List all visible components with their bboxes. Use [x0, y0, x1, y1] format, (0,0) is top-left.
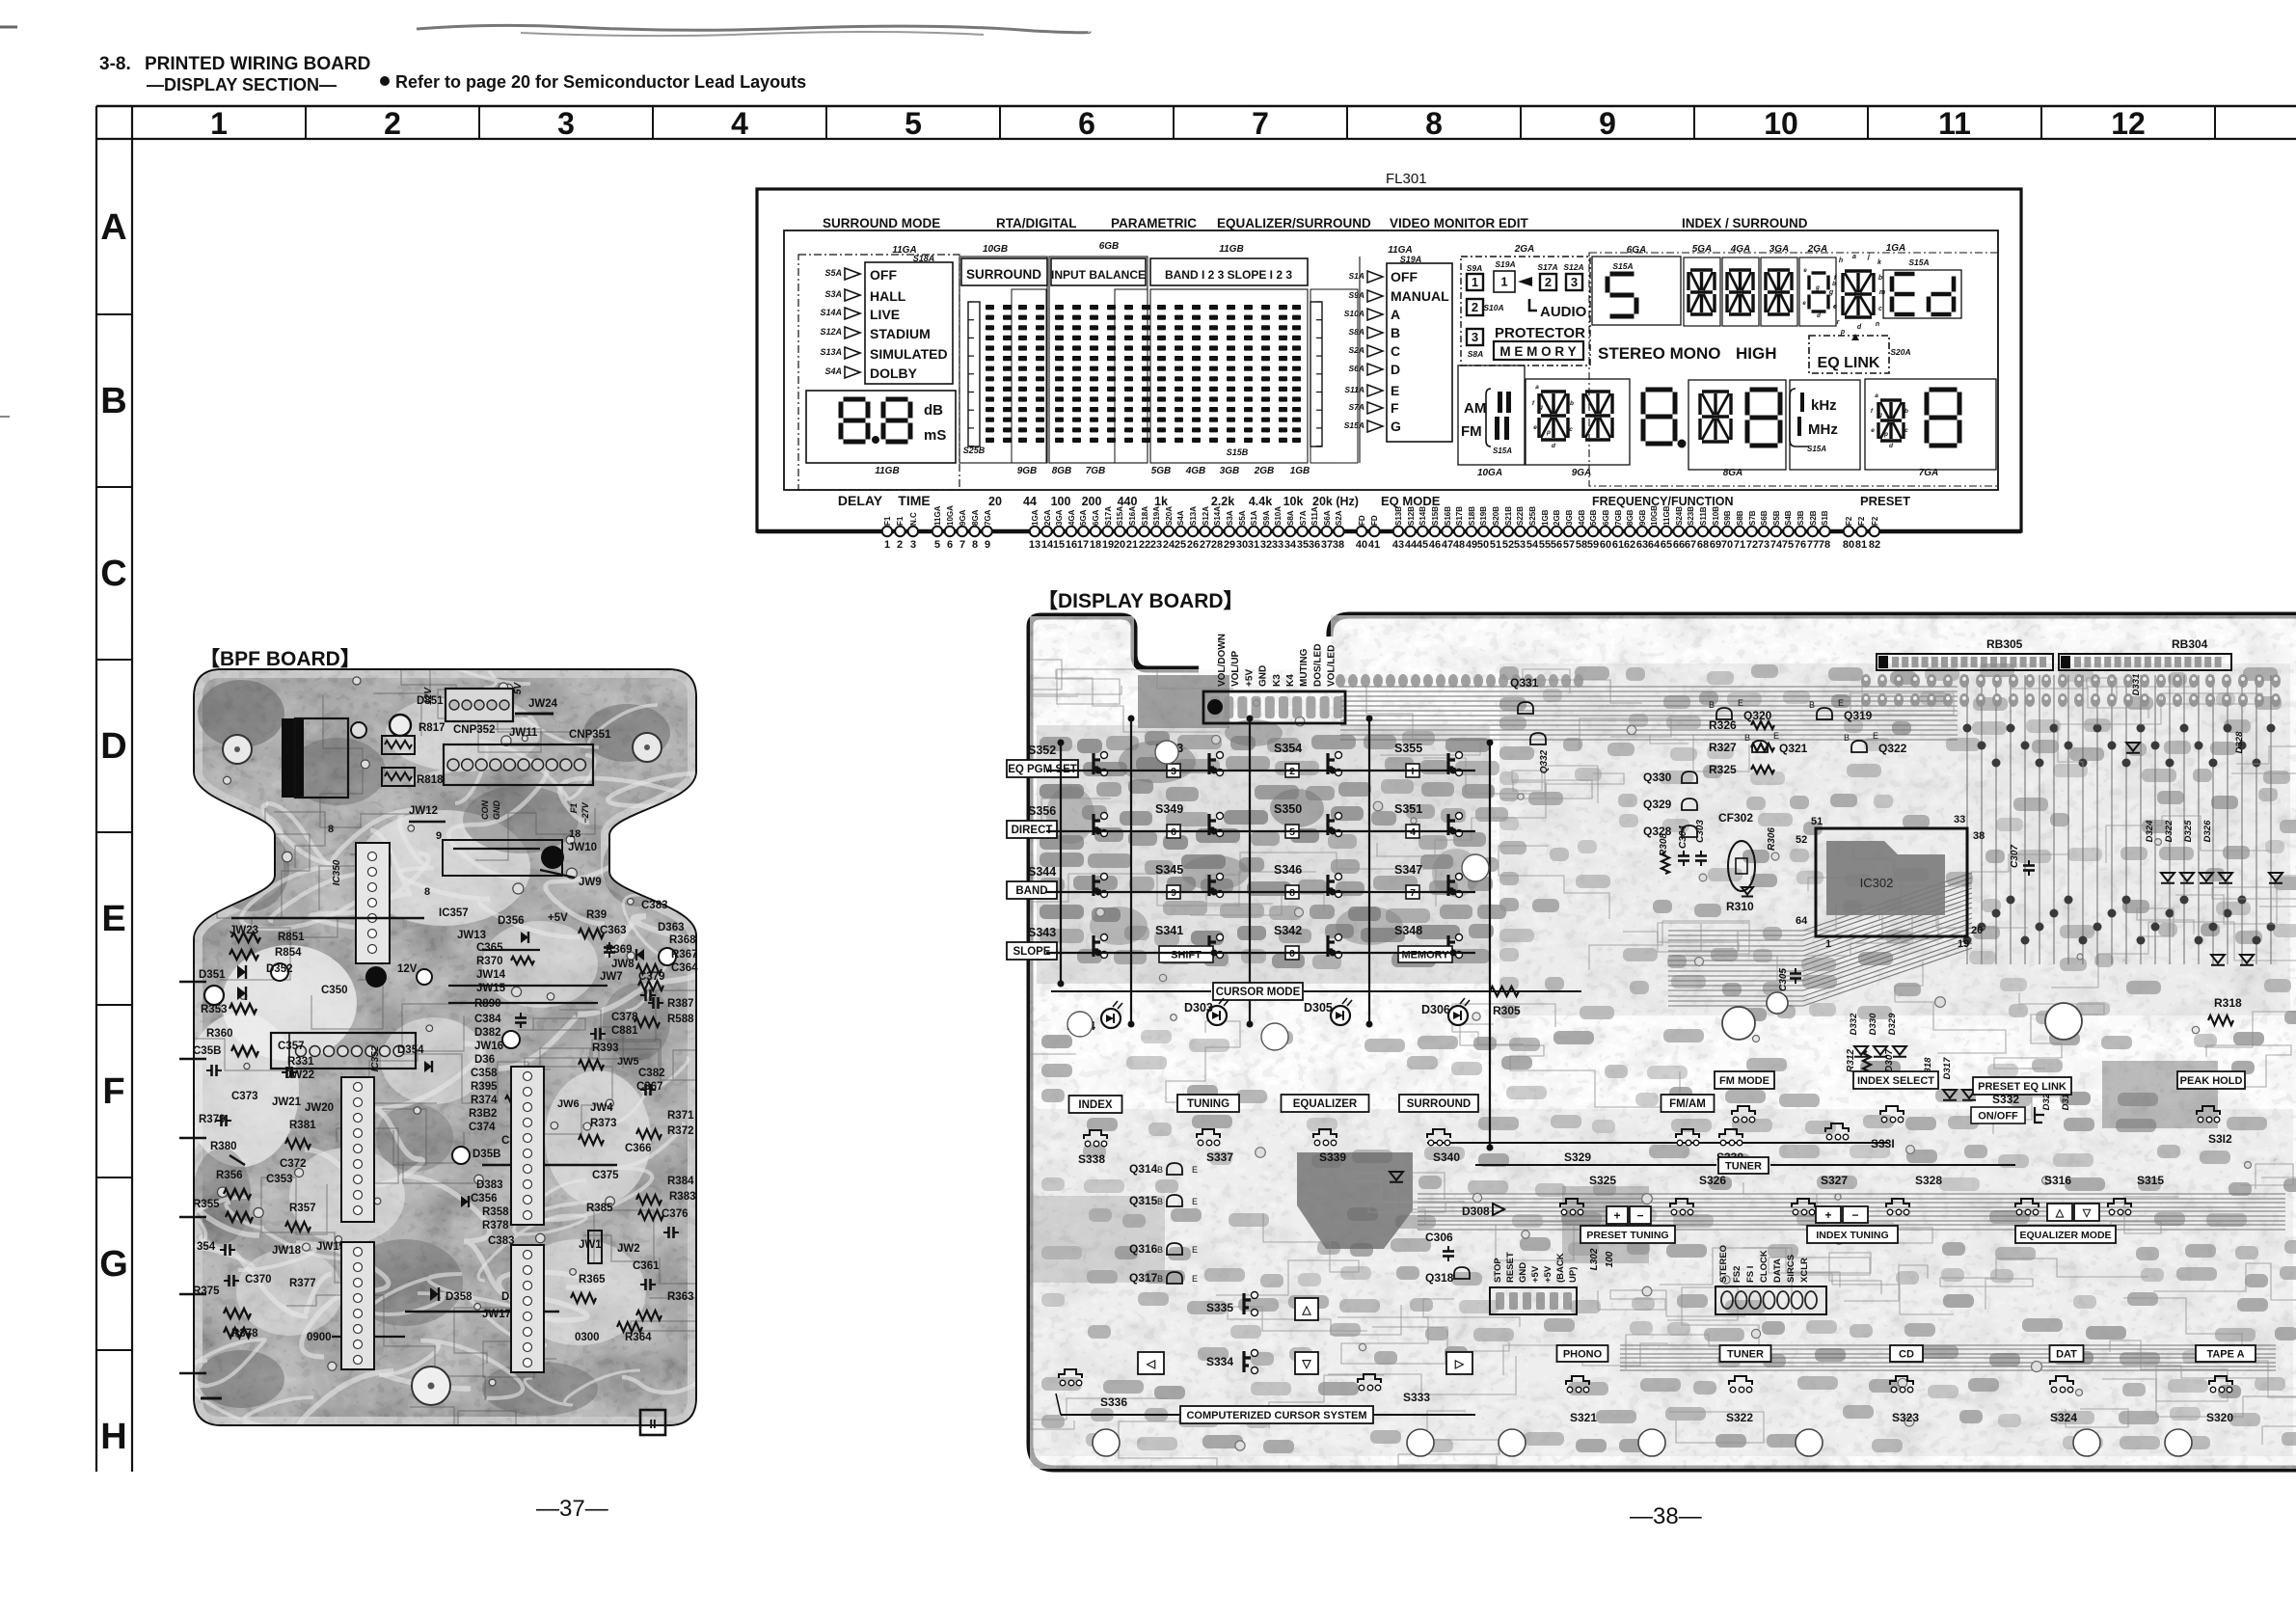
svg-text:R385: R385 — [586, 1203, 613, 1214]
svg-text:4.4k: 4.4k — [1249, 495, 1272, 508]
svg-text:(BACK: (BACK — [1555, 1253, 1566, 1283]
svg-text:37: 37 — [1321, 539, 1333, 551]
svg-text:R3B2: R3B2 — [469, 1108, 497, 1120]
svg-text:67: 67 — [1685, 539, 1696, 551]
svg-text:STEREO: STEREO — [1718, 1245, 1729, 1283]
7seg digit with decimal point — [1646, 388, 1673, 392]
svg-text:3: 3 — [910, 539, 916, 551]
svg-text:R356: R356 — [216, 1170, 243, 1181]
svg-text:JW2: JW2 — [617, 1243, 640, 1255]
svg-text:E: E — [1838, 698, 1844, 708]
svg-text:S348: S348 — [1394, 924, 1422, 937]
svg-text:52: 52 — [1502, 539, 1514, 551]
svg-text:INDEX / SURROUND: INDEX / SURROUND — [1682, 216, 1808, 230]
svg-text:R39: R39 — [586, 909, 607, 921]
svg-text:7: 7 — [959, 539, 965, 551]
svg-text:b: b — [1878, 275, 1883, 282]
svg-text:XCLR: XCLR — [1799, 1258, 1810, 1283]
svg-text:66: 66 — [1673, 539, 1685, 551]
svg-text:SLOPE: SLOPE — [1013, 946, 1051, 958]
svg-text:3: 3 — [557, 106, 575, 141]
svg-text:51: 51 — [1811, 816, 1823, 827]
svg-text:18: 18 — [1090, 539, 1101, 551]
more switches S330 S331 — [1719, 1129, 1742, 1138]
svg-text:m: m — [1879, 289, 1885, 296]
svg-text:3GB: 3GB — [1220, 466, 1240, 476]
segment reference starburst 1GA — [1845, 269, 1872, 272]
BPF trace channels — [99, 556, 802, 1485]
svg-text:D324: D324 — [2145, 820, 2155, 842]
svg-text:CON: CON — [480, 800, 490, 821]
svg-text:S17B: S17B — [1455, 506, 1464, 526]
AM/FM band display — [1458, 365, 1525, 465]
svg-text:81: 81 — [1855, 539, 1867, 551]
svg-text:5: 5 — [905, 106, 922, 141]
svg-text:6: 6 — [1078, 106, 1095, 141]
svg-text:R817: R817 — [419, 722, 446, 734]
svg-text:S336: S336 — [1100, 1395, 1127, 1409]
svg-text:11GB: 11GB — [1662, 505, 1671, 526]
svg-text:57: 57 — [1563, 539, 1575, 551]
svg-text:S33I: S33I — [1871, 1137, 1895, 1150]
svg-text:R890: R890 — [474, 998, 501, 1010]
svg-text:S315: S315 — [2137, 1174, 2164, 1187]
R305 — [1490, 987, 1519, 996]
svg-text:VOL/LED: VOL/LED — [1327, 645, 1337, 687]
svg-text:69: 69 — [1710, 539, 1721, 551]
svg-text:R379: R379 — [199, 1114, 226, 1125]
svg-text:SIMULATED: SIMULATED — [870, 346, 948, 362]
svg-text:4GB: 4GB — [1578, 509, 1586, 526]
svg-text:6GA: 6GA — [1092, 509, 1100, 526]
svg-text:p: p — [1883, 431, 1888, 438]
svg-text:R318: R318 — [2214, 996, 2242, 1010]
svg-text:5GA: 5GA — [1079, 509, 1088, 526]
svg-text:S2B: S2B — [1809, 510, 1818, 526]
svg-text:+5V: +5V — [1543, 1265, 1553, 1283]
svg-text:64: 64 — [1796, 915, 1808, 927]
svg-text:20k (Hz): 20k (Hz) — [1312, 495, 1359, 508]
svg-text:2: 2 — [384, 106, 401, 141]
button PHONO / switch S321 — [1557, 1345, 1608, 1362]
svg-text:R383: R383 — [669, 1191, 696, 1203]
svg-text:FM MODE: FM MODE — [1719, 1075, 1769, 1087]
button TAPE A / switch S320 — [2196, 1345, 2255, 1362]
svg-text:S335: S335 — [1206, 1301, 1233, 1314]
LED D306 — [1448, 1006, 1468, 1025]
svg-text:HALL: HALL — [870, 288, 906, 304]
svg-text:Q321: Q321 — [1779, 742, 1808, 755]
svg-text:JW6: JW6 — [557, 1098, 580, 1110]
svg-text:S339: S339 — [1319, 1150, 1346, 1164]
svg-text:S322: S322 — [1726, 1411, 1753, 1424]
svg-text:E: E — [101, 899, 125, 939]
svg-text:S12A: S12A — [820, 327, 842, 337]
svg-text:D358: D358 — [446, 1291, 473, 1303]
svg-text:100: 100 — [1605, 1251, 1615, 1267]
svg-text:82: 82 — [1869, 539, 1880, 551]
svg-text:SURROUND MODE: SURROUND MODE — [823, 216, 940, 230]
svg-text:STADIUM: STADIUM — [870, 326, 931, 341]
svg-text:C356: C356 — [471, 1193, 498, 1204]
svg-text:62: 62 — [1624, 539, 1635, 551]
svg-text:S332: S332 — [1992, 1093, 2019, 1106]
svg-text:STEREO MONO: STEREO MONO — [1598, 344, 1721, 363]
svg-text:5GB: 5GB — [1589, 509, 1598, 526]
svg-text:R854: R854 — [275, 947, 302, 959]
svg-text:S9A: S9A — [1262, 510, 1271, 526]
svg-text:VOL/DOWN: VOL/DOWN — [1217, 634, 1228, 687]
svg-text:h: h — [1839, 257, 1843, 264]
svg-text:IC352: IC352 — [370, 1045, 381, 1071]
svg-text:CD: CD — [1899, 1348, 1914, 1360]
svg-text:72: 72 — [1746, 539, 1758, 551]
svg-text:g: g — [1828, 289, 1834, 296]
svg-text:—38—: —38— — [1630, 1503, 1702, 1529]
svg-text:a: a — [1852, 254, 1856, 260]
svg-text:1: 1 — [1500, 275, 1507, 289]
svg-text:7GB: 7GB — [1086, 466, 1106, 476]
svg-text:S2A: S2A — [1335, 510, 1343, 526]
svg-text:8GA: 8GA — [971, 509, 980, 526]
svg-text:R326: R326 — [1709, 718, 1737, 732]
svg-text:68: 68 — [1697, 539, 1709, 551]
svg-text:+: + — [1613, 1208, 1620, 1222]
svg-text:0300: 0300 — [575, 1332, 600, 1343]
svg-text:PRESET EQ LINK: PRESET EQ LINK — [1978, 1081, 2066, 1093]
svg-text:40: 40 — [1356, 539, 1367, 551]
svg-text:D325: D325 — [2183, 820, 2194, 842]
svg-text:R378: R378 — [482, 1220, 509, 1232]
svg-text:S5A: S5A — [824, 268, 842, 278]
svg-text:C365: C365 — [476, 942, 503, 954]
svg-text:6GB: 6GB — [1099, 241, 1120, 252]
svg-text:C: C — [1391, 343, 1400, 359]
svg-text:DAT: DAT — [2056, 1348, 2077, 1360]
svg-text:F2: F2 — [1845, 516, 1853, 526]
svg-text:AUDIO: AUDIO — [1540, 304, 1587, 320]
svg-text:S25B: S25B — [963, 446, 986, 455]
main connector (VOL/K3/K4) — [1203, 691, 1345, 723]
svg-text:S14B: S14B — [1418, 506, 1427, 526]
D851 — [390, 715, 411, 736]
svg-text:PRESET TUNING: PRESET TUNING — [1586, 1230, 1668, 1241]
svg-text:E: E — [1873, 731, 1878, 741]
svg-text:PRINTED WIRING BOARD: PRINTED WIRING BOARD — [145, 54, 370, 74]
svg-text:4: 4 — [731, 106, 748, 141]
svg-text:S21B: S21B — [1504, 506, 1513, 526]
svg-text:31: 31 — [1248, 539, 1259, 551]
svg-text:BAND I 2 3 SLOPE I 2 3: BAND I 2 3 SLOPE I 2 3 — [1165, 268, 1292, 282]
board ref 11 — [640, 1410, 665, 1435]
svg-text:C367: C367 — [636, 1081, 663, 1093]
svg-text:S7A: S7A — [1299, 510, 1308, 526]
svg-text:JW12: JW12 — [409, 805, 438, 817]
svg-text:12V: 12V — [423, 687, 434, 705]
svg-text:S321: S321 — [1570, 1411, 1597, 1424]
svg-text:46: 46 — [1429, 539, 1441, 551]
svg-text:16: 16 — [1066, 539, 1077, 551]
svg-text:+5V: +5V — [1530, 1265, 1541, 1283]
svg-text:S11A: S11A — [1310, 506, 1319, 526]
svg-text:R353: R353 — [201, 1004, 228, 1015]
svg-text:JW8: JW8 — [611, 959, 635, 970]
svg-text:HIGH: HIGH — [1736, 344, 1777, 363]
svg-text:Q322: Q322 — [1878, 742, 1907, 755]
svg-text:F2: F2 — [1857, 516, 1866, 526]
svg-text:MEMORY: MEMORY — [1401, 949, 1449, 961]
svg-text:S18B: S18B — [1468, 506, 1476, 526]
svg-text:JW22: JW22 — [285, 1069, 314, 1081]
svg-text:58: 58 — [1576, 539, 1587, 551]
svg-text:S15A: S15A — [1807, 445, 1826, 453]
display board outline — [1030, 616, 2296, 1469]
svg-text:B: B — [1157, 1274, 1163, 1284]
svg-text:2GA: 2GA — [1043, 509, 1052, 526]
svg-text:S5A: S5A — [1238, 510, 1247, 526]
svg-text:b: b — [1832, 282, 1836, 287]
button EQUALIZER / switch S339 — [1282, 1095, 1369, 1112]
svg-text:S346: S346 — [1274, 863, 1302, 877]
svg-text:4GA: 4GA — [1067, 509, 1076, 526]
svg-text:H: H — [100, 1417, 126, 1457]
svg-text:S341: S341 — [1155, 924, 1183, 937]
svg-text:7GA: 7GA — [984, 509, 992, 526]
svg-text:36: 36 — [1309, 539, 1320, 551]
delay-time 7seg display 11GB — [806, 391, 956, 463]
svg-text:S15A: S15A — [1612, 261, 1633, 271]
svg-text:B: B — [1391, 325, 1400, 340]
svg-text:49: 49 — [1466, 539, 1477, 551]
svg-text:200: 200 — [1082, 495, 1102, 508]
svg-text:c: c — [1904, 427, 1908, 434]
svg-text:S20B: S20B — [1492, 506, 1500, 526]
svg-text:S18A: S18A — [913, 254, 935, 263]
svg-text:S3A: S3A — [1226, 510, 1234, 526]
svg-text:9GB: 9GB — [1638, 509, 1647, 526]
svg-text:S2A: S2A — [1348, 345, 1364, 355]
svg-text:61: 61 — [1612, 539, 1624, 551]
svg-text:1: 1 — [1472, 275, 1478, 289]
svg-text:19: 19 — [1102, 539, 1114, 551]
svg-text:S11B: S11B — [1699, 506, 1708, 526]
svg-text:354: 354 — [197, 1241, 216, 1253]
svg-text:50: 50 — [1477, 539, 1489, 551]
svg-text:S6A: S6A — [1348, 364, 1364, 373]
svg-text:K4: K4 — [1285, 674, 1296, 687]
svg-text:S12A: S12A — [1563, 262, 1583, 272]
svg-text:—DISPLAY SECTION—: —DISPLAY SECTION— — [147, 75, 337, 95]
svg-text:S338: S338 — [1078, 1152, 1105, 1166]
svg-text:2.2k: 2.2k — [1211, 495, 1234, 508]
svg-text:10GB: 10GB — [1650, 505, 1659, 526]
svg-text:【BPF BOARD】: 【BPF BOARD】 — [200, 648, 361, 670]
button CD / switch S323 — [1890, 1345, 1923, 1362]
svg-text:b: b — [1904, 408, 1908, 415]
svg-text:C357: C357 — [278, 1041, 305, 1052]
svg-text:10GA: 10GA — [1477, 468, 1502, 478]
svg-text:D332: D332 — [1849, 1013, 1859, 1035]
svg-text:JW18: JW18 — [272, 1245, 302, 1257]
svg-text:9GA: 9GA — [959, 509, 967, 526]
svg-text:C382: C382 — [638, 1068, 665, 1079]
svg-text:S1B: S1B — [1821, 510, 1829, 526]
svg-text:F: F — [1391, 400, 1399, 416]
svg-text:c: c — [1569, 426, 1573, 433]
svg-text:K3: K3 — [1272, 674, 1283, 687]
C350 connector — [271, 1033, 416, 1069]
button TUNER / switch S322 — [1720, 1345, 1771, 1362]
svg-text:D351: D351 — [199, 969, 226, 981]
svg-text:S355: S355 — [1394, 742, 1422, 755]
svg-text:0900: 0900 — [307, 1332, 332, 1343]
svg-text:80: 80 — [1843, 539, 1854, 551]
svg-text:11GB: 11GB — [1219, 244, 1243, 255]
svg-text:D303: D303 — [1184, 1001, 1213, 1015]
svg-text:e: e — [1533, 424, 1537, 431]
svg-text:38: 38 — [1333, 539, 1344, 551]
svg-text:1GB: 1GB — [1541, 509, 1550, 526]
svg-text:JW15: JW15 — [476, 983, 506, 994]
svg-text:EQUALIZER MODE: EQUALIZER MODE — [2019, 1230, 2111, 1241]
svg-text:VIDEO MONITOR EDIT: VIDEO MONITOR EDIT — [1390, 216, 1529, 230]
svg-text:S16A: S16A — [1128, 506, 1137, 526]
svg-text:S3A: S3A — [824, 289, 842, 299]
svg-text:F1: F1 — [883, 516, 892, 526]
svg-text:73: 73 — [1758, 539, 1769, 551]
R376 R378 — [224, 1309, 251, 1318]
svg-text:S19B: S19B — [1479, 506, 1488, 526]
svg-text:COMPUTERIZED CURSOR SYSTEM: COMPUTERIZED CURSOR SYSTEM — [1186, 1410, 1366, 1421]
RTA spectrum bar display — [961, 258, 1047, 285]
svg-text:2GB: 2GB — [1254, 466, 1275, 476]
svg-text:S343: S343 — [1028, 926, 1056, 939]
svg-text:G: G — [99, 1244, 128, 1285]
svg-text:S344: S344 — [1028, 865, 1056, 879]
svg-text:R380: R380 — [210, 1141, 237, 1152]
svg-text:p: p — [1546, 429, 1551, 436]
svg-text:IC302: IC302 — [1860, 876, 1894, 890]
index/surround 14-seg display row — [1592, 257, 1681, 325]
svg-text:S19A: S19A — [1152, 506, 1161, 526]
svg-text:55: 55 — [1539, 539, 1551, 551]
svg-text:8GB: 8GB — [1626, 509, 1634, 526]
svg-text:B: B — [1709, 700, 1715, 710]
svg-text:38: 38 — [1973, 830, 1985, 842]
svg-text:II: II — [649, 1417, 656, 1431]
svg-text:10k: 10k — [1283, 495, 1304, 508]
svg-text:S18A: S18A — [1141, 506, 1149, 526]
svg-text:Q316: Q316 — [1129, 1242, 1158, 1256]
svg-text:S23B: S23B — [1687, 506, 1695, 526]
svg-text:2GB: 2GB — [1553, 509, 1561, 526]
svg-text:IC350: IC350 — [332, 859, 342, 885]
IC302 — [1816, 828, 1967, 936]
svg-text:100: 100 — [1051, 495, 1071, 508]
svg-text:70: 70 — [1721, 539, 1733, 551]
svg-text:p: p — [1840, 329, 1846, 336]
svg-text:11GB: 11GB — [875, 466, 899, 476]
svg-text:R360: R360 — [206, 1028, 233, 1040]
svg-text:R306: R306 — [1767, 827, 1777, 851]
svg-text:C881: C881 — [611, 1025, 638, 1037]
svg-text:FS I: FS I — [1745, 1266, 1756, 1283]
svg-text:45: 45 — [1417, 539, 1428, 551]
svg-text:C366: C366 — [625, 1143, 652, 1154]
svg-text:FM: FM — [1461, 423, 1482, 440]
svg-text:63: 63 — [1636, 539, 1648, 551]
svg-text:18: 18 — [569, 828, 581, 840]
svg-text:JW10: JW10 — [568, 842, 597, 853]
svg-text:S1A: S1A — [1250, 510, 1258, 526]
frequency digits 9GA — [1526, 379, 1630, 465]
svg-text:R368: R368 — [669, 934, 696, 946]
surround-mode selector list S18A — [798, 255, 959, 490]
svg-text:STOP: STOP — [1493, 1258, 1503, 1283]
svg-text:3: 3 — [1571, 275, 1578, 289]
svg-text:30: 30 — [1236, 539, 1248, 551]
svg-text:35: 35 — [1297, 539, 1309, 551]
svg-text:22: 22 — [1139, 539, 1150, 551]
svg-text:59: 59 — [1587, 539, 1599, 551]
svg-text:S350: S350 — [1274, 802, 1302, 816]
Q320 Q319 Q321 Q322 — [1716, 708, 1732, 719]
svg-text:8GB: 8GB — [1052, 466, 1072, 476]
svg-text:B: B — [1157, 1165, 1163, 1175]
svg-text:R818: R818 — [417, 774, 444, 786]
svg-text:S349: S349 — [1155, 802, 1183, 816]
svg-text:S4A: S4A — [1176, 510, 1185, 526]
svg-text:C350: C350 — [321, 985, 348, 996]
svg-text:PEAK HOLD: PEAK HOLD — [2180, 1075, 2243, 1087]
svg-text:S22B: S22B — [1516, 506, 1525, 526]
svg-text:S9B: S9B — [1723, 510, 1732, 526]
svg-text:D383: D383 — [476, 1179, 503, 1191]
button FM/AM / switch S329 — [1661, 1095, 1715, 1112]
computerized cursor system — [1180, 1406, 1373, 1423]
svg-text:SURROUND: SURROUND — [966, 267, 1041, 282]
svg-text:8: 8 — [424, 886, 430, 898]
svg-text:33: 33 — [1954, 814, 1965, 826]
svg-text:S15B: S15B — [1431, 506, 1440, 526]
svg-text:S25B: S25B — [1528, 506, 1537, 526]
svg-text:D363: D363 — [658, 922, 685, 934]
svg-text:5V: 5V — [513, 682, 524, 695]
svg-text:10GB: 10GB — [983, 244, 1008, 255]
stereo/mono/high text — [1589, 253, 1998, 486]
svg-text:C372: C372 — [280, 1158, 307, 1170]
svg-text:E: E — [1192, 1245, 1198, 1255]
JW10 box — [443, 840, 562, 876]
svg-text:28: 28 — [1211, 539, 1223, 551]
svg-text:JW14: JW14 — [476, 969, 506, 981]
scanner smudge — [417, 25, 1090, 32]
R817 — [382, 736, 415, 754]
svg-text:27: 27 — [1200, 539, 1211, 551]
svg-text:VOL/UP: VOL/UP — [1230, 650, 1241, 687]
svg-text:E: E — [1738, 698, 1743, 708]
LED D303 — [1207, 1006, 1227, 1025]
svg-text:D322: D322 — [2164, 820, 2174, 842]
svg-text:C375: C375 — [592, 1170, 619, 1181]
svg-text:23: 23 — [1150, 539, 1162, 551]
svg-text:S19A: S19A — [1400, 255, 1422, 264]
svg-text:▽: ▽ — [2082, 1207, 2092, 1219]
svg-text:S13A: S13A — [820, 347, 842, 357]
svg-text:C353: C353 — [266, 1174, 293, 1185]
svg-text:R365: R365 — [579, 1274, 606, 1286]
svg-text:R851: R851 — [278, 932, 305, 943]
